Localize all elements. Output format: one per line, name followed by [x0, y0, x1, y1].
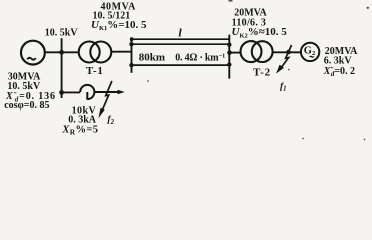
svg-text:10. 5kV: 10. 5kV — [45, 27, 79, 38]
junction dot on main wire — [59, 50, 64, 55]
wire T-1 to line terminal — [111, 51, 131, 53]
speck bottom right — [364, 139, 366, 141]
right terminal bar — [228, 35, 230, 79]
branch wire reactor to arrow — [94, 91, 118, 93]
dimension line l — [132, 38, 230, 40]
branch wire from bus to reactor — [62, 91, 81, 93]
speck near f1 — [288, 69, 290, 71]
svg-text:6. 3kV: 6. 3kV — [324, 56, 353, 67]
fault bolt f2 — [102, 81, 112, 110]
transformer T-2 — [241, 41, 273, 62]
left terminal bar — [131, 38, 133, 72]
box corner dots — [129, 42, 133, 46]
svg-text:T-1: T-1 — [86, 65, 104, 77]
reactor — [80, 85, 94, 100]
svg-text:XR%=5: XR%=5 — [61, 124, 98, 136]
svg-text:T-2: T-2 — [253, 66, 271, 78]
junction dot at fault f1 — [286, 50, 291, 55]
speck bottom — [302, 138, 304, 140]
branch arrowhead — [118, 90, 125, 95]
wire G1 to T-1 — [45, 51, 79, 53]
svg-text:0. 4Ω · km−1: 0. 4Ω · km−1 — [175, 52, 225, 63]
svg-text:cosφ=0. 85: cosφ=0. 85 — [4, 100, 49, 111]
fault bolt f1 — [281, 45, 291, 68]
transformer T-1 — [79, 42, 112, 63]
speck top right — [367, 7, 369, 9]
wire T-2 to G2 — [273, 51, 301, 53]
svg-text:80km: 80km — [139, 52, 165, 64]
wire line to T-2 — [229, 52, 241, 54]
svg-text:X″d=0. 2: X″d=0. 2 — [323, 66, 355, 78]
junction dot branch — [59, 90, 64, 95]
speck top edge — [229, 0, 233, 2]
speck mid — [147, 80, 149, 82]
bus node 10.5kV vertical bar — [61, 38, 63, 98]
transmission line box top edge — [132, 43, 230, 45]
transmission line box bottom edge — [132, 64, 230, 66]
generator G2 — [301, 43, 319, 61]
generator G1 — [21, 41, 45, 65]
